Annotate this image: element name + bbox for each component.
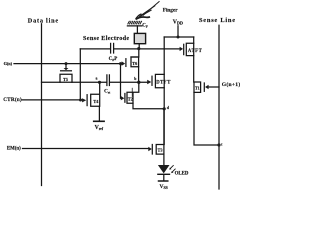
svg-text:ATFT: ATFT — [188, 49, 203, 54]
svg-text:T2: T2 — [128, 97, 133, 102]
svg-text:CFP: CFP — [109, 57, 118, 62]
svg-text:T5: T5 — [63, 77, 68, 82]
svg-text:b: b — [134, 77, 136, 81]
svg-text:DTFT: DTFT — [156, 81, 171, 86]
svg-text:OLED: OLED — [175, 172, 189, 177]
svg-text:Sense Electrode: Sense Electrode — [83, 35, 129, 42]
svg-text:G(n+1): G(n+1) — [222, 81, 240, 88]
svg-text:CF: CF — [142, 24, 148, 29]
svg-text:G(n): G(n) — [4, 61, 13, 66]
svg-text:Data line: Data line — [28, 18, 59, 25]
svg-text:T6: T6 — [132, 61, 138, 66]
svg-text:a: a — [96, 77, 98, 81]
svg-text:T1: T1 — [195, 85, 200, 90]
svg-text:CTR(n): CTR(n) — [3, 96, 22, 103]
svg-text:Sense Line: Sense Line — [199, 17, 236, 24]
svg-text:VDD: VDD — [173, 20, 183, 26]
svg-text:T4: T4 — [93, 99, 99, 104]
svg-text:T3: T3 — [158, 147, 163, 152]
svg-text:EM(n): EM(n) — [7, 147, 21, 152]
svg-text:Finger: Finger — [163, 7, 178, 13]
